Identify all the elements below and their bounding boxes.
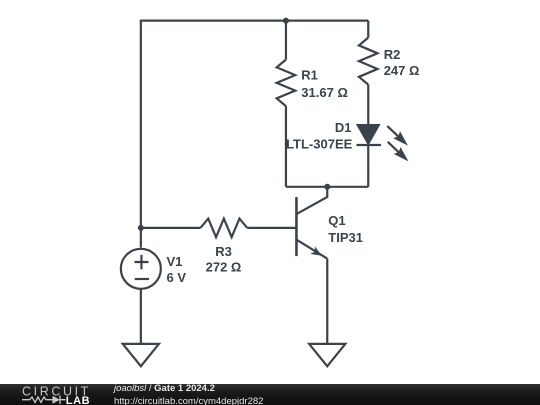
diode D1 LED triangle [358, 125, 379, 144]
D1 light arrow 1 [387, 126, 408, 146]
svg-text:247 Ω: 247 Ω [384, 63, 420, 78]
wire base rail right [247, 227, 296, 229]
resistor R1 [277, 60, 296, 107]
wire R2 top lead [367, 21, 369, 38]
wire base rail left [141, 227, 201, 229]
wire R2 to LED [367, 85, 369, 126]
svg-text:R2: R2 [384, 47, 401, 62]
svg-text:LAB: LAB [66, 395, 90, 405]
transistor Q1 base bar [295, 197, 298, 256]
svg-text:Q1: Q1 [328, 213, 345, 228]
svg-text:D1: D1 [335, 120, 352, 135]
Q1 emitter [297, 240, 327, 259]
wire top rail [141, 20, 368, 22]
ground right [309, 344, 345, 366]
svg-text:272 Ω: 272 Ω [206, 260, 242, 275]
svg-text:TIP31: TIP31 [328, 230, 363, 245]
footer line 2 [114, 396, 263, 405]
wire left vertical [140, 20, 142, 248]
Q1 collector [297, 187, 327, 214]
V1 plus sign [134, 255, 148, 269]
wire emitter to ground [326, 259, 328, 344]
circuitlab logo [15, 384, 110, 405]
footer bar [0, 384, 540, 405]
V1 minus sign [135, 278, 149, 280]
node top junction [283, 18, 289, 24]
footer line 1 [114, 383, 215, 394]
diode D1 cathode bar [356, 144, 381, 146]
wire R1 top lead [285, 21, 287, 60]
svg-text:LTL-307EE: LTL-307EE [286, 136, 353, 151]
Q1 emitter arrow [310, 246, 322, 256]
wire D1 to bottom rail [367, 145, 369, 187]
svg-text:31.67 Ω: 31.67 Ω [301, 85, 348, 100]
svg-text:R3: R3 [215, 244, 232, 259]
wire R1 bottom lead [285, 106, 287, 187]
node base junction [138, 225, 144, 231]
node collector junction [324, 184, 330, 190]
svg-text:R1: R1 [301, 67, 318, 82]
ground left [123, 344, 159, 366]
wire V1 to ground [140, 289, 142, 344]
D1 light arrow 2 [388, 142, 409, 162]
svg-text:V1: V1 [167, 254, 183, 269]
svg-text:6 V: 6 V [167, 270, 187, 285]
wire bottom loop rail [286, 186, 368, 188]
source V1 circle [121, 249, 161, 289]
resistor R2 [359, 38, 378, 85]
resistor R3 [200, 219, 247, 238]
